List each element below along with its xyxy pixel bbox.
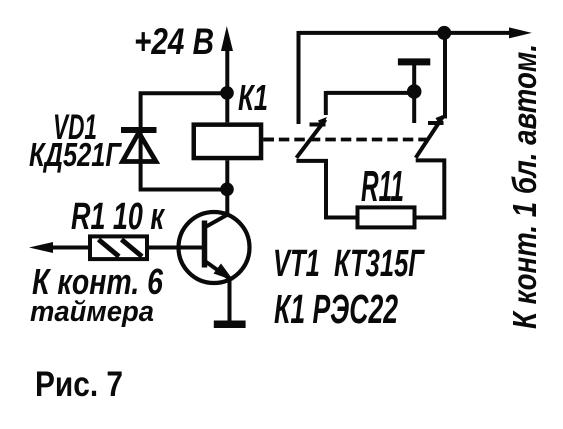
- svg-text:К конт. 1 бл. автом.: К конт. 1 бл. автом.: [506, 44, 543, 329]
- svg-text:VT1 КТ315Г: VT1 КТ315Г: [273, 243, 425, 285]
- svg-text:Рис. 7: Рис. 7: [35, 365, 123, 404]
- svg-text:+24 В: +24 В: [134, 21, 214, 62]
- svg-text:R11: R11: [361, 162, 404, 211]
- svg-text:КД521Г: КД521Г: [29, 136, 122, 173]
- svg-text:таймера: таймера: [30, 296, 154, 328]
- svg-text:К1 РЭС22: К1 РЭС22: [274, 286, 398, 332]
- svg-text:К1: К1: [238, 77, 268, 118]
- svg-text:R1 10 к: R1 10 к: [71, 196, 165, 238]
